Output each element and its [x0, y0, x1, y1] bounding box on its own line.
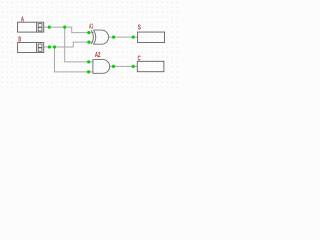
node dot B output pin: [48, 45, 51, 48]
output block C body: [137, 61, 164, 71]
background: [0, 0, 180, 91]
node dot C input pin: [132, 65, 135, 68]
xor gate A1 extra input arc: [91, 30, 93, 44]
node dot A1 input lower: [87, 41, 90, 44]
wire A2 output to C: [110, 65, 138, 67]
svg-text:A: A: [21, 14, 25, 23]
input block B switch divider: [36, 43, 38, 53]
input block A switch square top: [38, 24, 42, 28]
input block A switch divider: [36, 22, 38, 32]
node dot A2 input lower: [87, 70, 90, 73]
node dot A2 input upper: [87, 60, 90, 63]
svg-text:A1: A1: [89, 22, 93, 31]
node dot A output pin: [48, 26, 51, 29]
node dot A1 output: [112, 36, 115, 39]
wire B output to junction: [44, 46, 55, 48]
wire junction B down to AND gate A2 lower input: [55, 47, 94, 72]
xor gate A1 body: [94, 30, 109, 44]
node dot A2 output: [112, 65, 115, 68]
node dot A1 input upper: [87, 31, 90, 34]
node dot S input pin: [132, 36, 135, 39]
wire A output to junction and A1 upper input: [44, 27, 94, 32]
wire A1 output to S: [109, 36, 138, 38]
svg-text:A2: A2: [95, 50, 101, 59]
svg-text:C: C: [138, 53, 142, 62]
input block B body: [18, 43, 44, 53]
wire junction B to A1 lower input: [55, 42, 94, 47]
junction node A: [63, 26, 66, 29]
svg-text:S: S: [138, 23, 141, 32]
output block S body: [138, 32, 165, 43]
input block A switch square bottom: [38, 28, 42, 32]
input block A body: [18, 22, 44, 32]
junction node B: [53, 45, 56, 48]
and gate A2 body: [93, 60, 110, 74]
wire junction A down to AND gate A2 upper input: [65, 27, 94, 62]
input block B switch square top: [38, 44, 42, 48]
input block B switch square bottom: [38, 48, 42, 52]
svg-text:B: B: [18, 34, 21, 43]
